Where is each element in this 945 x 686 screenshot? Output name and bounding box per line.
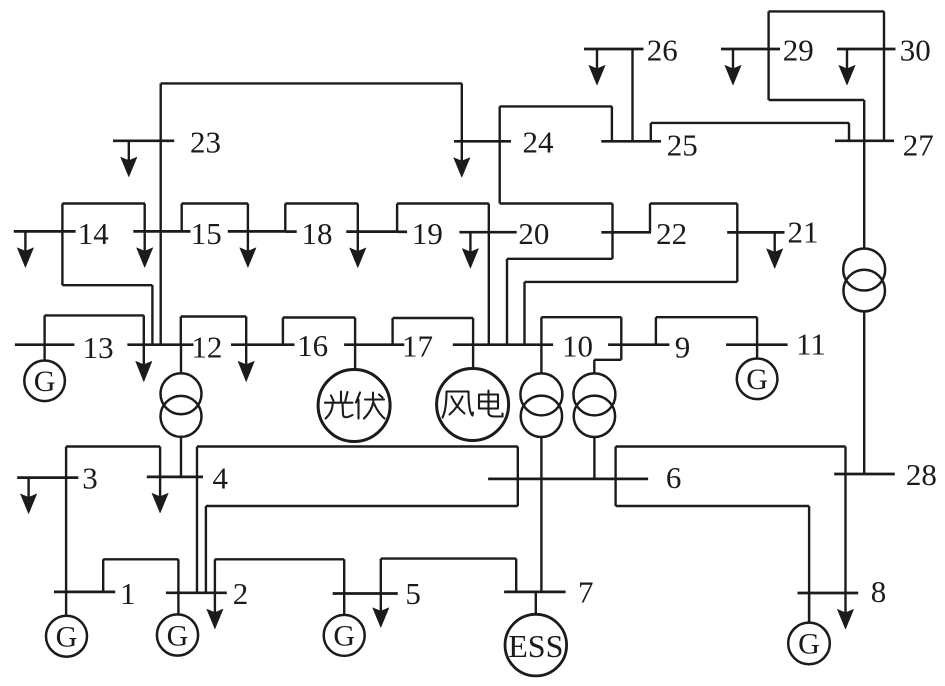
wire 16-17 drop to wind bbox=[472, 318, 474, 369]
bus 16 bbox=[344, 343, 404, 346]
wire 20-10 vertical bbox=[488, 204, 490, 345]
wire 6-8 drop bbox=[808, 506, 810, 623]
svg-text:G: G bbox=[333, 620, 355, 653]
bus 15 right segment bbox=[228, 230, 286, 233]
wire T10a to bus 7 bbox=[540, 437, 542, 592]
wire 12-14 drop to bus 12 bbox=[151, 285, 153, 345]
transformer T4-12 lower circle bbox=[161, 396, 202, 437]
wire 21-10 horizontal bbox=[525, 281, 738, 283]
bus 20 bbox=[459, 231, 516, 234]
bus 10 right segment bbox=[608, 343, 669, 346]
bus 14 bbox=[14, 230, 76, 233]
wire T10b to bus 6 bbox=[593, 437, 595, 479]
generator G13 stem bbox=[43, 345, 45, 361]
wire 21-10 drop to bus 10 bbox=[523, 282, 525, 345]
wire 22-10 drop to bus 10 bbox=[506, 259, 508, 345]
wire 16-17 top bbox=[393, 317, 474, 319]
bus 19 stub bbox=[397, 230, 407, 233]
wire 23-15-12 vertical bbox=[159, 83, 161, 344]
wire 1-2 drop to bus 2 bbox=[177, 559, 179, 593]
wire 10 hook top bbox=[541, 316, 621, 318]
generator G8 stem bbox=[808, 593, 810, 623]
transformer T10b lower circle bbox=[574, 396, 615, 437]
wire 18-19 top bbox=[285, 202, 358, 204]
wind label feng bbox=[443, 392, 474, 418]
wire 5-7 drop bbox=[515, 559, 517, 592]
svg-text:G: G bbox=[34, 365, 56, 398]
bus 2 bbox=[166, 591, 227, 594]
transformer T27-28 lower circle bbox=[843, 270, 885, 312]
wire 4-28 long horizontal right bbox=[616, 445, 846, 447]
wire 29-27 drop to bus 27 bbox=[863, 100, 865, 141]
wire 12-16 drop to PV bbox=[354, 318, 356, 370]
wire 4-6 drop bbox=[517, 447, 519, 507]
wire 18 riser bbox=[284, 204, 286, 232]
wire 13-12 top bbox=[45, 314, 144, 316]
wire 29-30 top link bbox=[769, 10, 884, 12]
generator G13 bbox=[24, 361, 65, 402]
transformer T4-12 stem top bbox=[180, 345, 182, 374]
svg-text:22: 22 bbox=[656, 216, 687, 251]
svg-text:30: 30 bbox=[900, 33, 931, 68]
svg-text:12: 12 bbox=[191, 330, 222, 365]
wire 25-27 horizontal bbox=[651, 122, 849, 124]
svg-text:14: 14 bbox=[78, 216, 110, 251]
svg-text:19: 19 bbox=[412, 216, 443, 251]
bus 9-11 bbox=[726, 343, 788, 346]
bus 30 bbox=[837, 48, 896, 51]
wire 28-8 / load arrow at bus 8 bbox=[844, 447, 846, 614]
load arrow at bus 3 bbox=[27, 478, 29, 498]
bus 25 bbox=[601, 140, 661, 143]
svg-text:ESS: ESS bbox=[508, 628, 563, 664]
wire 15-18 drop / load arrow at bus 15 bbox=[247, 204, 249, 232]
wire 13-12 drop / load arrow at bus 12 bbox=[143, 315, 145, 344]
wire 12 hook riser bbox=[180, 317, 182, 345]
wire 1-2 riser bbox=[102, 559, 104, 592]
energy storage ESS stem bbox=[535, 592, 537, 614]
wire 22-21 drop bbox=[736, 204, 738, 282]
wire 6-8 bottom horizontal bbox=[616, 505, 810, 507]
wire 24-25 drop bbox=[611, 106, 613, 141]
bus 5 bbox=[333, 592, 398, 595]
bus 28 bbox=[834, 473, 895, 476]
wire 2-6 horizontal left bbox=[206, 505, 518, 507]
svg-text:26: 26 bbox=[647, 33, 678, 68]
wire 19 riser bbox=[396, 204, 398, 232]
wire 24-25 riser bbox=[499, 106, 501, 203]
bus 18 stub bbox=[285, 230, 296, 233]
wire 15-18 top bbox=[182, 202, 248, 204]
load arrow at bus 30 bbox=[846, 49, 848, 69]
svg-text:16: 16 bbox=[297, 328, 328, 363]
generator G11 bbox=[737, 359, 778, 400]
generator G8 bbox=[788, 623, 830, 665]
transformer T10a lower circle bbox=[521, 396, 562, 437]
transformer T10b upper circle bbox=[573, 373, 615, 415]
generator G1 bbox=[46, 616, 87, 657]
wire 2-5 riser / load arrow at bus 2 bbox=[214, 559, 216, 593]
bus 6 bbox=[488, 478, 648, 481]
wire 9-11 top bbox=[656, 316, 757, 318]
wire 30-27 right leg bbox=[883, 11, 885, 140]
wire 29-27 horizontal bbox=[769, 99, 865, 101]
svg-text:27: 27 bbox=[903, 128, 934, 163]
wire 5-7 riser / load arrow at bus 5 bbox=[380, 559, 382, 594]
svg-text:7: 7 bbox=[578, 575, 594, 610]
wire 25-27 riser bbox=[650, 123, 652, 141]
bus 17 bbox=[453, 343, 553, 346]
svg-text:21: 21 bbox=[788, 214, 819, 249]
wire 9-11 drop bbox=[756, 317, 758, 358]
bus 1 bbox=[54, 591, 115, 594]
wire 24-25 horizontal bbox=[500, 105, 612, 107]
transformer T27-28 upper circle bbox=[843, 249, 885, 291]
load arrow at bus 20 bbox=[469, 232, 471, 252]
svg-text:18: 18 bbox=[302, 216, 333, 251]
svg-text:2: 2 bbox=[233, 576, 249, 611]
svg-text:23: 23 bbox=[190, 125, 221, 160]
svg-text:25: 25 bbox=[667, 128, 698, 163]
svg-text:20: 20 bbox=[518, 216, 549, 251]
wire 12-16 top bbox=[283, 316, 355, 318]
bus 7 bbox=[504, 591, 565, 594]
bus 27 bbox=[835, 139, 894, 142]
wire 5-7 top bbox=[381, 557, 516, 559]
bus 18 right segment bbox=[346, 230, 397, 233]
svg-text:10: 10 bbox=[562, 329, 593, 364]
wire 1-2 top bbox=[103, 558, 178, 560]
wire 10 jog bbox=[594, 359, 621, 361]
bus 21 bbox=[727, 231, 784, 234]
load arrow at bus 29 bbox=[732, 49, 734, 69]
svg-text:9: 9 bbox=[675, 330, 691, 365]
bus 8 bbox=[798, 592, 859, 595]
PV label guang bbox=[325, 392, 353, 419]
svg-text:28: 28 bbox=[906, 457, 937, 492]
wire 22 cross vertical bbox=[611, 204, 613, 259]
energy storage ESS bbox=[505, 614, 567, 676]
svg-text:G: G bbox=[798, 628, 820, 661]
wire 14-15 drop / load arrow bbox=[143, 204, 145, 232]
svg-text:G: G bbox=[167, 619, 189, 652]
bus 23 bbox=[113, 139, 174, 142]
wire 3-4 top bbox=[66, 445, 160, 447]
wire 10 hook drop bbox=[620, 317, 622, 360]
svg-text:G: G bbox=[746, 363, 768, 396]
generator G2 stem bbox=[177, 593, 179, 615]
load arrow at bus 26 bbox=[596, 49, 598, 69]
wind label dian bbox=[479, 391, 503, 417]
transformer T4-12 upper circle bbox=[161, 373, 202, 414]
svg-text:3: 3 bbox=[82, 461, 98, 496]
bus 24 bbox=[454, 140, 511, 143]
wire 23-24 drop / load arrow at bus 24 bbox=[461, 83, 463, 141]
generator G5 bbox=[324, 615, 365, 656]
transformer T4-12 stem bottom bbox=[180, 437, 182, 477]
load arrow at bus 14 bbox=[24, 231, 26, 251]
bus 3 bbox=[17, 476, 78, 479]
generator G2 bbox=[157, 614, 198, 655]
bus 12 right segment bbox=[231, 343, 295, 346]
photovoltaic unit PV circle bbox=[318, 370, 390, 442]
wire 13-12 riser bbox=[43, 315, 45, 344]
svg-text:17: 17 bbox=[402, 329, 433, 364]
bus 29 bbox=[721, 48, 780, 51]
wire 12 hook drop / load arrow bbox=[245, 317, 247, 345]
wire 4-28 long horizontal left bbox=[197, 445, 518, 447]
wire 9 riser bbox=[655, 317, 657, 345]
wire 3-4 drop / load arrow at bus 4 bbox=[159, 447, 161, 477]
bus 4 bbox=[147, 476, 203, 479]
bus 12 left segment bbox=[127, 343, 193, 346]
generator G5 stem bbox=[343, 594, 345, 615]
wire 2-6 vertical bbox=[205, 506, 207, 593]
load arrow at bus 21 bbox=[774, 232, 776, 252]
wire 10 hook riser bbox=[540, 317, 542, 373]
wire 25-27 drop bbox=[848, 123, 850, 141]
svg-text:13: 13 bbox=[83, 330, 114, 365]
wire 22-21 top bbox=[650, 202, 737, 204]
wire 3-1 vertical bbox=[65, 447, 67, 616]
svg-text:5: 5 bbox=[405, 576, 421, 611]
svg-text:G: G bbox=[56, 621, 78, 654]
svg-text:1: 1 bbox=[120, 576, 136, 611]
wire 12 hook top bbox=[181, 315, 246, 317]
wire 18-19 drop / load arrow at bus 18 bbox=[357, 204, 359, 232]
load arrow at bus 23 bbox=[128, 141, 130, 161]
wire 19-20 top bbox=[397, 202, 489, 204]
wind unit circle bbox=[437, 369, 509, 441]
wire 22 riser bbox=[649, 204, 651, 233]
wire 6 box left bbox=[614, 447, 616, 507]
transformer T10a upper circle bbox=[520, 373, 562, 415]
wire 2-5 top bbox=[215, 558, 344, 560]
bus 22 left segment bbox=[601, 231, 651, 234]
wire 24-22 horizontal bbox=[500, 202, 613, 204]
wire 12-14 bottom horizontal bbox=[62, 284, 152, 286]
svg-text:29: 29 bbox=[783, 33, 814, 68]
svg-text:11: 11 bbox=[796, 327, 826, 362]
wire 15-18 riser bbox=[180, 204, 182, 232]
svg-text:15: 15 bbox=[191, 216, 222, 251]
wire 10 jog drop bbox=[593, 360, 595, 374]
svg-text:6: 6 bbox=[666, 460, 682, 495]
wire 16-17 riser bbox=[391, 318, 393, 345]
bus 26 bbox=[584, 48, 644, 51]
wire 22-10 horizontal bbox=[507, 258, 613, 260]
svg-text:24: 24 bbox=[523, 125, 555, 160]
bus 13 bbox=[15, 343, 75, 346]
bus 15 left segment bbox=[133, 230, 190, 233]
wire 23-24 top horizontal bbox=[161, 82, 462, 84]
wire 29-30 left leg bbox=[767, 11, 769, 100]
wire 14-15 top bbox=[62, 202, 145, 204]
svg-text:8: 8 bbox=[871, 574, 887, 609]
wire 2-5 drop bbox=[343, 559, 345, 593]
wire 12-16 riser bbox=[282, 318, 284, 345]
svg-text:4: 4 bbox=[213, 461, 229, 496]
wire 14-15 left leg bbox=[61, 204, 63, 286]
wire transformer to bus 28 bbox=[863, 312, 865, 475]
wire 27 to transformer bbox=[863, 141, 865, 249]
wire 4-2 vertical bbox=[196, 447, 198, 593]
wire 25-26 bbox=[631, 49, 633, 141]
PV label fu bbox=[356, 393, 385, 419]
